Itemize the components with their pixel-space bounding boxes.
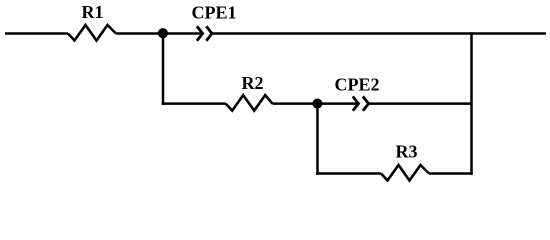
resistor R1 [68, 25, 116, 41]
wire: left lead to R1 [5, 32, 68, 35]
wire: R1 through node A to CPE1 [116, 32, 203, 35]
svg-text:R2: R2 [242, 73, 264, 93]
svg-text:CPE1: CPE1 [192, 3, 237, 23]
resistor R2 [226, 95, 273, 111]
wire: node A down [162, 34, 165, 105]
wire: right vertical rail [470, 32, 473, 175]
svg-text:CPE2: CPE2 [335, 75, 380, 95]
node A junction dot [158, 28, 168, 38]
wire: CPE2 to right rail [369, 102, 472, 105]
wire: node B down [316, 104, 319, 175]
CPE2 [353, 96, 359, 110]
wire: middle branch to R2 [162, 102, 226, 105]
wire: CPE1 to right rail [212, 32, 546, 35]
CPE1 [197, 26, 203, 40]
wire: bottom branch to R3 [316, 172, 381, 175]
resistor R3 [381, 165, 429, 181]
node B junction dot [312, 99, 322, 109]
svg-text:R1: R1 [82, 2, 104, 22]
wire: R2 through node B to CPE2 [273, 102, 359, 105]
svg-text:R3: R3 [396, 142, 418, 162]
wire: R3 to right rail [429, 172, 473, 175]
